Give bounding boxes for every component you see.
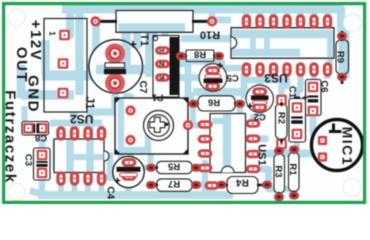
wire US3 interior right vertical: [327, 30, 333, 66]
wire US3 pad stub x325: [324, 72, 330, 79]
wire P1 left-top pad up: [123, 96, 131, 106]
svg-text:US3: US3: [264, 71, 288, 85]
wire vertical x137 to C7: [133, 31, 141, 49]
wire C2 bottom to US1 right pad: [253, 108, 260, 122]
capacitor C1 body: [289, 99, 306, 143]
transistor T1 tab: [170, 37, 180, 95]
capacitor C6 plus: [303, 95, 308, 100]
IC US2 pads top row: [56, 126, 106, 140]
IC US2 notch: [104, 151, 109, 161]
capacitor C4 body: [113, 156, 144, 187]
wire US2 interior verticals: [70, 140, 90, 172]
wire vertical through C7: [121, 9, 130, 69]
capacitor C7 plate bar solid: [104, 69, 126, 74]
trimmer P1 body: [115, 98, 188, 154]
resistor R5 leads: [150, 166, 197, 169]
resistor R10 leads: [99, 20, 208, 23]
resistor R8 pad left: [176, 52, 186, 60]
wire jog up to C7 band: [91, 69, 100, 75]
wire US1 right pad4 to bottom right band: [253, 169, 294, 189]
wire US1 right pad2 stub: [253, 135, 269, 142]
wire US3 pad to C6 top pad: [311, 72, 317, 84]
mounting hole bottom right: [343, 179, 361, 197]
capacitor C4 outline redraw: [113, 156, 144, 187]
wire left of US2: [52, 140, 57, 170]
wire US1 interior band: [223, 114, 231, 171]
wire band under US3 bottom pads: [246, 77, 287, 84]
resistor R5 pad left: [146, 164, 156, 172]
svg-text:R4: R4: [236, 177, 249, 188]
svg-text:2: 2: [157, 62, 166, 66]
microphone MIC1 pad upper: [318, 136, 327, 145]
svg-text:C1: C1: [287, 86, 298, 99]
svg-text:R2: R2: [276, 112, 287, 124]
resistor R3 pad bottom: [274, 193, 284, 201]
transistor T1 body: [153, 36, 179, 98]
wire horizontal band through C7: [94, 65, 152, 75]
wire pad3 band down to US2 pad: [70, 95, 78, 140]
wire C7 bottom down then to US2 pad: [90, 83, 115, 140]
trimmer P1 pad left top: [125, 105, 135, 115]
IC US2 pads bottom row: [56, 171, 106, 185]
svg-text:US2: US2: [70, 112, 94, 126]
capacitor C6 body: [306, 80, 322, 116]
svg-text:1: 1: [157, 48, 166, 52]
wire C8 right pad down to C3 top: [39, 131, 45, 152]
wire R5 right pad to US1: [198, 160, 205, 167]
wire C3 bottom to bottom band: [39, 176, 45, 190]
wire R10 right pad to bus: [209, 9, 216, 20]
resistor R7 pad left: [146, 181, 156, 189]
wire vertical through J1 right part: [75, 6, 83, 95]
resistor R6 body: [198, 96, 235, 111]
wire vertical under P1: [118, 101, 125, 164]
svg-text:R7: R7: [168, 178, 180, 189]
capacitor C5 bar outline: [205, 75, 221, 78]
wire P1 interior traces: [121, 99, 148, 153]
svg-text:R5: R5: [167, 160, 180, 171]
wire US2 bottom stubs: [61, 182, 102, 193]
wire US3 pad to R2 top pad: [282, 72, 288, 97]
trimmer P1 pad wiper: [183, 120, 193, 130]
wire C4 interior stub from P1: [127, 158, 133, 163]
capacitor C8 bars: [33, 124, 35, 133]
svg-text:R1: R1: [287, 163, 298, 176]
wire vertical between C7 and T1: [145, 31, 152, 77]
trimmer P1 pad left bottom: [125, 135, 135, 145]
microphone MIC1 polarity mark: [329, 124, 342, 132]
svg-text:1: 1: [48, 31, 57, 36]
resistor R1 pad top: [289, 146, 299, 154]
wire bottom band: [38, 191, 233, 199]
mounting hole top left: [8, 9, 25, 26]
wire R6 right pad down to US1: [237, 106, 243, 117]
resistor R5 pad right: [191, 164, 201, 172]
wire vertical below R10 left pad: [92, 21, 100, 76]
connector J1 pad 1: [59, 30, 70, 41]
capacitor C2 plus: [247, 103, 253, 109]
resistor R3 body: [274, 154, 285, 193]
wire right of US2 notch: [107, 152, 113, 178]
svg-text:C3: C3: [23, 154, 34, 166]
wire J1 interior: pad2 band: [44, 70, 94, 76]
resistor R3 pad top: [274, 147, 284, 155]
capacitor C4 pad bottom: [122, 172, 137, 181]
capacitor C6 pad bottom: [308, 106, 319, 117]
wire C5 top to R8 row: [210, 58, 216, 66]
transistor T1 pin1 marker: [153, 36, 157, 40]
capacitor C1 bars: [291, 116, 302, 118]
wire through C7 vertical: [121, 42, 130, 69]
svg-text:MIC1: MIC1: [340, 127, 356, 166]
wire R6 left pad to band: [188, 92, 194, 100]
wire R8 right pad down to US3 row: [182, 62, 243, 69]
IC US1 pads right column: [246, 119, 261, 173]
resistor R10 outline redraw: [116, 11, 193, 33]
IC US1 pads left column: [198, 120, 213, 172]
wire P1 left-bottom pad to C4: [127, 145, 133, 160]
capacitor C6 pad top: [308, 82, 319, 93]
resistor R10 pad right: [207, 16, 217, 26]
capacitor C6 bars: [308, 95, 318, 97]
capacitor C3 pad top: [37, 150, 48, 161]
capacitor C4 pad top: [122, 158, 137, 167]
svg-text:R3: R3: [272, 165, 283, 177]
wire C2 top to US3 pad: [260, 72, 274, 88]
wire R10 interior band: [119, 23, 186, 31]
wire R2 bottom to R3 top: [278, 145, 284, 152]
IC US3 pads top row: [242, 14, 332, 28]
wire US2 top stubs: [61, 123, 102, 130]
capacitor C1 top tick: [294, 97, 300, 99]
wire C1 bottom pad down: [294, 138, 300, 152]
resistor R9 pad bottom: [337, 73, 347, 81]
resistor R8 body: [186, 50, 214, 62]
connector J1 pad 2: [58, 58, 69, 69]
trimmer P1 index dot: [165, 123, 168, 126]
resistor R4 pad right: [262, 181, 272, 189]
wire pad3 row band: [21, 90, 74, 100]
trimmer P1 cross slot: [150, 117, 165, 132]
resistor R3 leads: [278, 152, 280, 197]
wire US3 top pad stubs: [247, 9, 328, 20]
wire US1 left pad4 down to band: [202, 170, 208, 192]
wire band under C5: [193, 88, 250, 96]
resistor R9 pad top: [337, 32, 347, 40]
resistor R1 leads: [293, 151, 295, 195]
capacitor C8 pad right: [37, 123, 48, 134]
resistor R2 leads: [280, 102, 282, 143]
resistor R1 body: [289, 153, 300, 192]
capacitor C5 bar solid: [204, 79, 223, 83]
wire US3 interior band 1: [232, 30, 333, 39]
capacitor C2 bar outline: [253, 101, 268, 104]
wire J1 interior: bus drop to pad1: [59, 19, 70, 35]
wire P1 to R5 left pad: [148, 150, 154, 165]
svg-text:C8: C8: [35, 132, 47, 143]
capacitor C4 bar solid: [117, 167, 141, 172]
resistor R10 body: [116, 11, 193, 33]
wire T1 pin3 to C5: [169, 74, 202, 81]
wire pad2 row band: [42, 71, 96, 81]
capacitor C2 bar solid: [251, 95, 269, 100]
wire US2 top band: [50, 120, 102, 127]
resistor R4 pad left: [217, 181, 227, 189]
wire C6 bottom to MIC1 pad: [313, 112, 319, 139]
IC US1 body: [210, 114, 246, 173]
wire US2 interior horizontal: [70, 154, 103, 160]
capacitor C4 bar outline: [120, 173, 138, 177]
IC US3 outline redraw: [231, 28, 334, 59]
wire bus corner down to J1 pad 1: [59, 9, 70, 35]
capacitor C7 outline redraw: [89, 40, 143, 94]
svg-text:P1: P1: [151, 92, 163, 103]
IC US1 notch: [221, 166, 234, 172]
mounting hole bottom left: [8, 184, 25, 201]
wire R6 right pad up to US3 pad: [241, 73, 248, 99]
wire under OUT label: [17, 65, 26, 98]
connector J1 body: [44, 19, 87, 113]
resistor R5 body: [157, 161, 193, 173]
mounting hole top right: [344, 14, 362, 32]
IC US3 pads bottom row: [242, 62, 332, 76]
capacitor C5 pad bottom: [205, 82, 220, 91]
trimmer P1 outer circle: [144, 111, 174, 141]
resistor R9 body: [336, 40, 349, 74]
capacitor C2 body: [246, 85, 273, 112]
resistor R9 leads: [341, 31, 344, 84]
resistor R2 pad top: [276, 95, 287, 106]
resistor R2 body: [276, 104, 288, 139]
capacitor C2 pad bottom: [252, 103, 267, 112]
wire band bend to bottom-left hole: [30, 191, 49, 195]
wire left vertical to band: [41, 40, 49, 75]
trimmer P1 inner circle: [148, 115, 170, 137]
wire top bus stub to T1 pin1: [150, 9, 157, 50]
wire J1 interior: pad3 band: [44, 90, 74, 100]
resistor R7 leads: [150, 184, 197, 187]
IC US3 body: [231, 28, 334, 59]
wire US3 interior band 2: [232, 49, 300, 57]
svg-text:C6: C6: [318, 80, 329, 92]
wire R10 right pad to US3 edge: [214, 17, 231, 24]
resistor R1 pad bottom: [289, 192, 299, 200]
wire vertical behind R9: [339, 28, 350, 78]
microphone MIC1 pad lower: [318, 152, 327, 161]
svg-text:R8: R8: [194, 49, 206, 60]
connector J1 outline redraw: [44, 19, 87, 113]
resistor R4 body: [227, 177, 258, 194]
wire J1 interior: left vertical: [41, 40, 49, 75]
capacitor C3 pad bottom: [37, 168, 48, 179]
svg-text:US1: US1: [256, 144, 268, 165]
trimmer P1 outline redraw: [115, 98, 188, 154]
wire T1 pin2 to R6 left pad: [169, 64, 188, 99]
capacitor C7 pad bottom: [105, 73, 125, 93]
wire R7 right pad to node pad: [197, 185, 212, 193]
resistor R6 pad left: [189, 100, 199, 108]
capacitor C7 pad top: [105, 43, 125, 63]
svg-text:T1: T1: [138, 34, 150, 47]
wire bus to R9 top pad: [330, 9, 341, 32]
svg-text:R6: R6: [208, 97, 220, 108]
capacitor C8 body: [22, 122, 49, 136]
capacitor C4 plus: [115, 178, 121, 184]
svg-text:J1: J1: [83, 97, 95, 110]
IC US2 outline redraw: [54, 139, 104, 173]
svg-text:C4: C4: [105, 186, 116, 199]
capacitor C7 plus: [130, 41, 136, 47]
capacitor C2 pad top: [252, 87, 267, 96]
wire US3 pad to C1 top pad: [297, 72, 301, 103]
resistor R6 pad right: [235, 100, 245, 108]
wire top bus stub to T1 tab: [162, 9, 169, 36]
capacitor C7 body: [89, 40, 143, 94]
capacitor C1 pad top: [292, 102, 303, 113]
IC US1 outline redraw: [210, 114, 246, 173]
capacitor C5 pad top: [205, 66, 220, 75]
wire through C7 horizontal: [96, 65, 141, 75]
svg-text:C2: C2: [254, 111, 266, 122]
wire C4 bottom to band: [125, 182, 131, 195]
resistor R8 pad right: [214, 52, 224, 60]
trimmer P1 corner marks: [115, 98, 188, 154]
capacitor C7 plate bar outline: [105, 63, 125, 68]
wire C5 bottom stub: [209, 85, 215, 93]
svg-text:R9: R9: [335, 51, 346, 63]
svg-text:3: 3: [157, 75, 166, 79]
capacitor C3 bars: [36, 161, 47, 163]
resistor R2 pad bottom: [276, 139, 287, 150]
wire US3 top pads to body stubs: [247, 26, 328, 34]
wire top bus: [62, 5, 333, 14]
transistor T1 pad 3: [155, 73, 170, 82]
transistor T1 pad 1: [155, 46, 170, 55]
svg-text:C5: C5: [226, 72, 239, 83]
wire R5 left pad stub: [141, 165, 149, 171]
svg-text:Futrzaczek: Futrzaczek: [2, 90, 19, 184]
svg-text:R10: R10: [200, 29, 220, 41]
node pad left of R4: [205, 181, 220, 190]
resistor R7 body: [157, 179, 193, 191]
wire band above R8: [181, 35, 231, 42]
svg-text:C7: C7: [137, 81, 148, 94]
wire P1 wiper to US1 left pad: [191, 122, 203, 128]
wire J1 interior: vertical x79.5: [75, 19, 83, 95]
capacitor C8 pad left: [23, 123, 34, 134]
resistor R4 leads: [220, 184, 265, 187]
resistor R8 leads: [179, 55, 220, 58]
IC US2 body: [54, 139, 104, 173]
microphone MIC1 body: [312, 120, 363, 171]
transistor T1 pad 2: [155, 60, 170, 69]
IC US3 notch: [231, 37, 237, 49]
resistor R10 pad left: [90, 16, 100, 26]
wire US1 interior stub: [212, 118, 227, 124]
connector J1 pad 3: [58, 88, 69, 99]
wire MIC1 row band: [253, 150, 319, 158]
wire C8 left pad up: [21, 106, 27, 125]
capacitor C1 pad bottom: [292, 129, 303, 140]
resistor R7 pad right: [191, 181, 201, 189]
wire US3 interior verticals: [253, 34, 267, 53]
capacitor C5 plus: [217, 63, 223, 69]
wire R6 left pad down to wiper trace: [190, 106, 196, 123]
capacitor C3 body: [34, 148, 51, 180]
svg-text:GND: GND: [25, 75, 42, 113]
resistor R6 leads: [192, 102, 241, 105]
wire US2 pad8 to C4: [103, 175, 114, 181]
capacitor C5 body: [199, 64, 227, 92]
